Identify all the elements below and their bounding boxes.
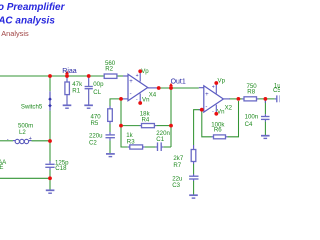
- svg-text:-: -: [212, 109, 214, 115]
- svg-text:C18: C18: [55, 165, 67, 172]
- svg-text:Analysis: Analysis: [1, 29, 29, 38]
- svg-text:R5: R5: [91, 120, 99, 127]
- svg-text:-: -: [205, 104, 207, 110]
- svg-text:Riaa: Riaa: [62, 68, 77, 75]
- svg-text:Vn: Vn: [142, 96, 149, 103]
- svg-text:R4: R4: [142, 117, 150, 124]
- svg-text:+: +: [29, 136, 32, 142]
- svg-text:X2: X2: [225, 105, 233, 112]
- svg-text:R7: R7: [173, 162, 181, 169]
- svg-text:AC analysis: AC analysis: [0, 16, 55, 27]
- svg-text:R2: R2: [105, 66, 113, 73]
- svg-text:-: -: [130, 91, 132, 97]
- svg-text:+: +: [129, 79, 133, 85]
- svg-text:C5: C5: [273, 87, 280, 94]
- svg-text:+: +: [212, 84, 215, 90]
- svg-text:R8: R8: [247, 88, 255, 95]
- svg-text:E: E: [0, 164, 3, 171]
- svg-text:C1: C1: [156, 136, 164, 143]
- svg-text:Vp: Vp: [218, 78, 226, 85]
- svg-text:L2: L2: [19, 129, 26, 136]
- svg-text:+: +: [136, 73, 139, 79]
- svg-text:C2: C2: [89, 139, 97, 146]
- svg-text:R6: R6: [214, 127, 222, 134]
- svg-text:+: +: [205, 92, 209, 98]
- svg-text:Out1: Out1: [171, 78, 186, 85]
- svg-text:Vn: Vn: [217, 108, 224, 115]
- svg-text:R1: R1: [72, 88, 80, 95]
- svg-text:C4: C4: [245, 121, 253, 128]
- svg-text:X4: X4: [149, 92, 157, 99]
- svg-text:R3: R3: [127, 139, 135, 146]
- svg-text:Vp: Vp: [141, 68, 149, 75]
- svg-text:-: -: [7, 136, 9, 142]
- svg-text:100n: 100n: [245, 114, 259, 121]
- svg-text:C3: C3: [172, 182, 180, 189]
- svg-text:-: -: [136, 97, 138, 103]
- svg-text:CL: CL: [93, 89, 101, 96]
- svg-text:00p: 00p: [93, 81, 104, 88]
- svg-text:Switch5: Switch5: [21, 103, 43, 110]
- svg-text:o Preamplifier: o Preamplifier: [0, 2, 66, 13]
